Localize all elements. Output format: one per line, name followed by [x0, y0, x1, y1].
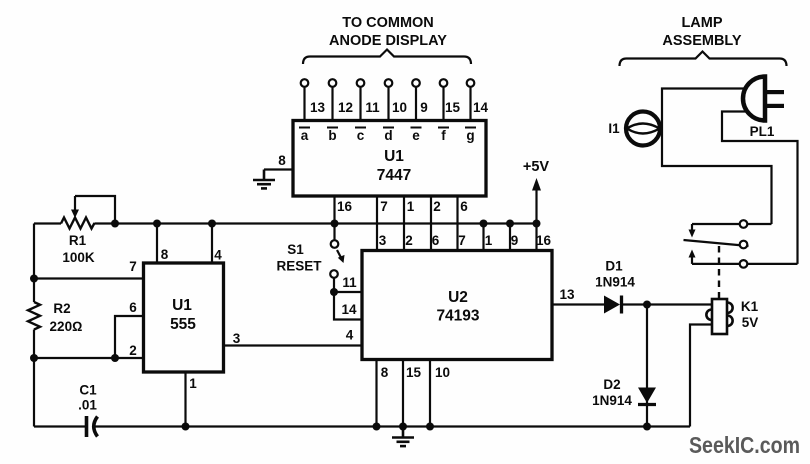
capacitor C1 — [87, 416, 98, 437]
svg-text:D2: D2 — [603, 377, 620, 392]
svg-text:7: 7 — [129, 259, 137, 274]
svg-text:I1: I1 — [608, 121, 620, 136]
svg-text:U1: U1 — [172, 297, 192, 314]
svg-text:.01: .01 — [78, 398, 97, 413]
wire U2 pins 1,9,16 to rail — [484, 224, 537, 251]
svg-text:14: 14 — [341, 302, 357, 317]
contact arrow down — [689, 224, 696, 238]
svg-text:S1: S1 — [287, 242, 304, 257]
diode D2 1N914 — [638, 388, 656, 405]
wire 7447 pins 7,1,2,6 down to U2 pins 3,2,6,7 — [377, 196, 458, 251]
svg-text:3: 3 — [233, 331, 241, 346]
svg-text:13: 13 — [310, 100, 326, 115]
svg-text:2: 2 — [433, 199, 441, 214]
svg-text:11: 11 — [342, 275, 357, 290]
svg-text:PL1: PL1 — [750, 124, 775, 139]
diode D1 1N914 — [604, 296, 712, 314]
svg-text:R1: R1 — [69, 233, 87, 248]
svg-text:8: 8 — [161, 247, 169, 262]
wire pin 8 of 7447 — [264, 168, 293, 170]
svg-text:220Ω: 220Ω — [50, 319, 83, 334]
ground at 7447 pin 8 — [253, 170, 275, 189]
svg-text:4: 4 — [346, 328, 354, 343]
op-amp U1 7447 box — [293, 121, 486, 197]
wire S1 to U2 pins 11,14 — [334, 278, 362, 320]
wire 555 pin1 — [184, 372, 186, 427]
svg-text:8: 8 — [278, 153, 286, 168]
svg-text:SeekIC.com: SeekIC.com — [689, 432, 800, 458]
wire U2 bottom pins 8,15,10 — [377, 360, 431, 427]
lamp I1 — [626, 112, 660, 146]
svg-text:1N914: 1N914 — [595, 275, 635, 290]
header TO COMMON ANODE DISPLAY — [329, 15, 447, 49]
wire 555 pin4 — [211, 224, 213, 264]
U2 left pin labels — [341, 275, 357, 343]
svg-text:g: g — [466, 128, 474, 143]
display terminal circles — [301, 79, 475, 87]
svg-text:16: 16 — [337, 199, 353, 214]
svg-text:7: 7 — [458, 233, 466, 248]
contact terminal circles — [740, 220, 748, 268]
resistor R1 potentiometer — [61, 218, 95, 229]
svg-text:5V: 5V — [742, 315, 759, 330]
node pin9 rail junction — [506, 220, 514, 228]
node pin8 rail junction — [153, 220, 161, 228]
switch S1 labels — [276, 242, 322, 274]
node pin6-pin2 junction — [111, 354, 119, 362]
wire 555 pin6 — [115, 316, 144, 358]
svg-text:6: 6 — [129, 300, 137, 315]
op-amp U1 555 box — [144, 263, 224, 372]
svg-text:15: 15 — [406, 365, 422, 380]
svg-text:f: f — [441, 128, 446, 143]
op-amp U2 74193 box — [362, 251, 552, 360]
svg-text:9: 9 — [511, 233, 519, 248]
node pin1 rail junction — [480, 220, 488, 228]
node pin4 rail junction — [208, 220, 216, 228]
node pin15 gnd junction — [399, 423, 407, 431]
wire plug circuit — [722, 112, 798, 264]
svg-text:e: e — [412, 128, 420, 143]
wire K1 lower terminal — [690, 325, 712, 427]
svg-text:6: 6 — [460, 199, 468, 214]
svg-text:3: 3 — [379, 233, 387, 248]
U2 top pin labels — [379, 233, 552, 248]
svg-text:ASSEMBLY: ASSEMBLY — [662, 33, 742, 49]
svg-text:9: 9 — [420, 100, 428, 115]
plug PL1 — [743, 77, 784, 121]
node D2 gnd junction — [643, 423, 651, 431]
svg-text:13: 13 — [559, 287, 575, 302]
svg-text:1N914: 1N914 — [592, 393, 632, 408]
ground below U2 — [392, 427, 414, 447]
contact armature — [684, 240, 749, 246]
contact arrow up — [689, 250, 696, 264]
svg-text:D1: D1 — [605, 259, 623, 274]
U2 bottom pin labels — [381, 365, 450, 380]
svg-text:K1: K1 — [741, 299, 759, 314]
svg-text:1: 1 — [407, 199, 415, 214]
svg-text:RESET: RESET — [276, 259, 322, 274]
wire segment display leads — [305, 87, 471, 121]
svg-text:C1: C1 — [79, 383, 97, 398]
node S1 rail junction — [331, 220, 339, 228]
node pin10 gnd junction — [426, 423, 434, 431]
brace display — [303, 50, 471, 65]
svg-text:c: c — [357, 128, 365, 143]
svg-text:14: 14 — [473, 100, 489, 115]
node pin2 left junction — [30, 354, 38, 362]
node pin1 ground junction — [182, 423, 190, 431]
555 pin labels — [129, 247, 241, 391]
node pin7 junction — [30, 275, 38, 283]
svg-text:2: 2 — [129, 343, 137, 358]
brace lamp assembly — [620, 52, 787, 67]
svg-text:1: 1 — [485, 233, 493, 248]
node pin8 gnd junction — [373, 423, 381, 431]
svg-text:+5V: +5V — [523, 159, 550, 175]
relay K1 coil — [706, 299, 732, 334]
pin labels bottom of 7447 — [337, 199, 468, 214]
svg-text:b: b — [328, 128, 336, 143]
segment labels a-g with overbars — [301, 128, 475, 143]
wire 555 pin7 — [34, 277, 144, 279]
svg-text:2: 2 — [405, 233, 413, 248]
pin numbers top of U1 7447 — [310, 100, 489, 115]
svg-text:7: 7 — [380, 199, 388, 214]
svg-text:d: d — [384, 128, 392, 143]
svg-text:74193: 74193 — [436, 308, 479, 325]
svg-text:8: 8 — [381, 365, 389, 380]
wire D2 branch — [646, 305, 648, 427]
svg-text:7447: 7447 — [377, 167, 411, 184]
svg-text:a: a — [301, 128, 309, 143]
svg-text:15: 15 — [445, 100, 461, 115]
svg-text:LAMP: LAMP — [681, 15, 722, 31]
wire 7447 pin16 to +5V rail — [333, 196, 335, 224]
wire U2 pin13 — [552, 303, 605, 305]
svg-text:1: 1 — [189, 376, 197, 391]
svg-text:6: 6 — [432, 233, 440, 248]
switch S1 — [330, 224, 344, 278]
node D1-K1-D2 junction — [643, 301, 651, 309]
svg-text:10: 10 — [435, 365, 450, 380]
node R1 bracket junction — [111, 220, 119, 228]
wire 555 pin8 — [156, 224, 158, 264]
relay contact top wire — [692, 223, 772, 225]
node S1 pin11 junction — [330, 288, 338, 296]
svg-text:U1: U1 — [384, 148, 404, 165]
relay contact bottom wire — [692, 263, 798, 265]
wire 555 pin2 — [34, 357, 144, 359]
header LAMP ASSEMBLY — [662, 15, 742, 49]
svg-text:555: 555 — [170, 316, 196, 333]
wire +5V rail — [34, 222, 537, 224]
node pin16 rail junction — [533, 220, 541, 228]
svg-text:12: 12 — [338, 100, 353, 115]
resistor R2 — [28, 302, 40, 330]
svg-text:R2: R2 — [53, 301, 70, 316]
svg-text:ANODE DISPLAY: ANODE DISPLAY — [329, 33, 447, 49]
svg-text:16: 16 — [536, 233, 552, 248]
dashed actuator link — [718, 246, 720, 299]
svg-text:U2: U2 — [448, 289, 468, 306]
R1 wiper bracket — [75, 196, 115, 224]
+5V supply arrow — [523, 159, 550, 224]
svg-text:TO COMMON: TO COMMON — [342, 15, 434, 31]
svg-text:100K: 100K — [62, 250, 95, 265]
wire left rail — [33, 224, 35, 427]
svg-text:4: 4 — [214, 248, 222, 263]
U1 7447 name — [377, 148, 411, 184]
R1 value labels — [62, 233, 95, 265]
svg-text:10: 10 — [392, 100, 407, 115]
wire ground rail bottom — [34, 425, 690, 427]
wire lamp circuit — [662, 89, 772, 225]
svg-text:11: 11 — [365, 100, 380, 115]
wire 555 pin3 to U2 pin4 — [224, 344, 363, 346]
